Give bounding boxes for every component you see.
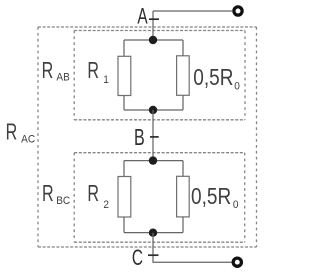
label 0,5R0 upper bbox=[193, 64, 233, 90]
svg-text:0: 0 bbox=[233, 199, 239, 212]
svg-text:2: 2 bbox=[103, 198, 109, 211]
wire 0,5R0 upper bottom lead bbox=[182, 95, 184, 110]
label R2 bbox=[87, 181, 99, 206]
svg-text:R: R bbox=[87, 58, 99, 83]
svg-text:R: R bbox=[6, 120, 18, 145]
wire node C to bottom terminal bbox=[153, 233, 232, 263]
dashed box R_AB bbox=[74, 31, 245, 120]
svg-text:AB: AB bbox=[56, 71, 69, 84]
resistor 0,5R0 upper bbox=[177, 56, 190, 96]
wire A to top terminal bbox=[153, 10, 232, 12]
label R_AB bbox=[42, 58, 54, 83]
resistor R1 bbox=[118, 56, 131, 95]
terminal C ring bbox=[233, 258, 241, 266]
svg-text:A: A bbox=[137, 5, 148, 29]
terminal A ring bbox=[234, 7, 242, 15]
label R_BC bbox=[42, 181, 54, 206]
wire node B vertical bbox=[152, 110, 154, 161]
svg-text:BC: BC bbox=[56, 195, 70, 208]
wire 0,5R0 upper top lead bbox=[182, 40, 184, 56]
resistor R2 bbox=[118, 177, 131, 218]
junction dot node C bbox=[149, 229, 157, 237]
svg-text:R: R bbox=[42, 181, 54, 206]
svg-text:R: R bbox=[42, 58, 54, 83]
junction dot node B upper bbox=[149, 106, 157, 114]
junction dot top node bbox=[149, 36, 157, 44]
wire R1 top lead bbox=[123, 40, 125, 56]
wire bottom node bar of R_AB bbox=[124, 109, 183, 111]
wire node A vertical bbox=[152, 11, 154, 40]
node C tick bbox=[148, 254, 159, 256]
node B tick bbox=[150, 136, 159, 138]
svg-text:B: B bbox=[134, 125, 145, 150]
svg-text:AC: AC bbox=[21, 133, 35, 146]
wire top node bar of R_BC bbox=[124, 160, 183, 162]
svg-text:0,5R: 0,5R bbox=[191, 183, 231, 209]
label R_AC bbox=[6, 120, 18, 145]
svg-text:R: R bbox=[87, 181, 99, 206]
junction dot node B lower bbox=[149, 156, 157, 164]
wire R2 top lead bbox=[123, 161, 125, 177]
resistor 0,5R0 lower bbox=[177, 176, 190, 217]
svg-text:1: 1 bbox=[103, 74, 109, 87]
label 0,5R0 lower bbox=[191, 183, 231, 209]
label B bbox=[134, 125, 145, 150]
wire 0,5R0 lower top lead bbox=[182, 161, 184, 177]
wire top node bar bbox=[124, 39, 183, 41]
label R1 bbox=[87, 58, 99, 83]
outer dashed box R_AC bbox=[38, 27, 257, 247]
wire bottom node bar of R_BC bbox=[124, 232, 183, 234]
svg-text:0: 0 bbox=[234, 80, 240, 93]
label A bbox=[137, 5, 148, 29]
wire R2 bottom lead bbox=[123, 217, 125, 233]
svg-text:0,5R: 0,5R bbox=[193, 64, 233, 90]
node A tick bbox=[149, 18, 159, 20]
wire 0,5R0 lower bottom lead bbox=[182, 217, 184, 233]
dashed box R_BC bbox=[74, 153, 245, 243]
svg-text:C: C bbox=[132, 246, 143, 270]
wire R1 bottom lead bbox=[123, 96, 125, 111]
label C bbox=[132, 246, 143, 270]
